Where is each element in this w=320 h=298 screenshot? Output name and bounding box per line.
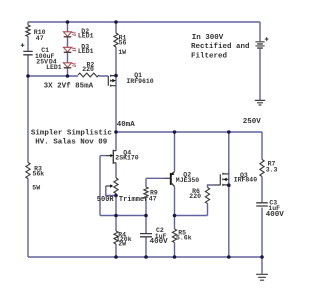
svg-text:LED1: LED1 bbox=[78, 48, 94, 55]
svg-text:Filtered: Filtered bbox=[191, 52, 227, 60]
svg-text:1W: 1W bbox=[118, 49, 126, 56]
svg-text:In 300V: In 300V bbox=[192, 34, 224, 42]
svg-text:LED1: LED1 bbox=[78, 33, 94, 40]
svg-text:LED1: LED1 bbox=[46, 64, 62, 71]
svg-text:Trimmer: Trimmer bbox=[119, 196, 148, 204]
svg-text:MJE350: MJE350 bbox=[176, 177, 200, 184]
svg-text:HV. Salas Nov 09: HV. Salas Nov 09 bbox=[35, 138, 108, 146]
svg-text:400V: 400V bbox=[150, 238, 169, 246]
svg-text:220: 220 bbox=[189, 193, 201, 200]
svg-text:400V: 400V bbox=[266, 211, 285, 219]
svg-text:3X 2Vf 85mA: 3X 2Vf 85mA bbox=[44, 82, 94, 90]
svg-text:5W: 5W bbox=[32, 185, 40, 192]
svg-text:5.6k: 5.6k bbox=[176, 235, 192, 242]
svg-text:2SK170: 2SK170 bbox=[115, 155, 139, 162]
svg-text:250V: 250V bbox=[243, 118, 262, 126]
svg-text:47: 47 bbox=[149, 196, 157, 203]
svg-text:2W: 2W bbox=[118, 241, 126, 248]
svg-text:3.3: 3.3 bbox=[266, 167, 278, 174]
svg-text:40mA: 40mA bbox=[117, 121, 136, 129]
svg-text:220: 220 bbox=[82, 66, 94, 73]
svg-text:IRF840: IRF840 bbox=[234, 176, 258, 183]
svg-text:IRF9610: IRF9610 bbox=[126, 78, 153, 85]
svg-text:56: 56 bbox=[119, 40, 127, 47]
svg-text:47: 47 bbox=[36, 35, 44, 42]
svg-text:500R: 500R bbox=[97, 196, 115, 204]
svg-text:56k: 56k bbox=[33, 170, 45, 177]
svg-text:Rectified and: Rectified and bbox=[191, 43, 250, 51]
svg-text:Simpler Simplistic: Simpler Simplistic bbox=[31, 130, 113, 138]
